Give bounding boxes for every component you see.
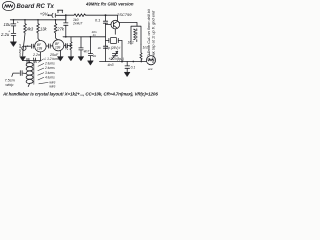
node B [65,14,67,16]
svg-text:0.1: 0.1 [131,66,136,70]
svg-text:0.1: 0.1 [95,18,100,22]
transistor Q2 [53,40,64,51]
capacitor C8 antenna [20,71,22,76]
svg-text:13k: 13k [40,27,48,32]
wire R1 to LED chain [23,34,25,56]
svg-text:GND led: GND led [18,44,22,56]
wire rail drop [65,15,67,22]
capacitor C13 [125,62,130,73]
svg-text:former, tap at 1t up fr. gnd e: former, tap at 1t up fr. gnd end [151,10,156,63]
node K [132,61,134,63]
node H [65,36,67,38]
node D [13,19,15,21]
svg-text:4k3: 4k3 [27,27,34,32]
node L [140,61,142,63]
svg-text:Board RC Tx: Board RC Tx [17,4,55,10]
mid rail wire [63,36,106,38]
capacitor C10 [88,37,92,61]
wire Q2 emitter [59,51,61,57]
svg-text:199: 199 [55,45,61,49]
crystal X1 [111,38,117,44]
node F [37,19,39,21]
svg-text:2x4u7: 2x4u7 [72,21,82,25]
capacitor C6 [64,44,71,48]
capacitor C2 [11,33,16,35]
resistor R1 [24,20,27,34]
svg-text:2 turns: 2 turns [44,62,55,66]
resistor R2 [37,20,40,34]
transistor Q1 [35,41,46,52]
capacitor C7 [27,58,29,62]
svg-text:At handlebar is crystal layout: At handlebar is crystal layout! X=1k2+..… [2,91,158,96]
wire center vertical [105,15,107,21]
svg-text:1n: 1n [93,33,97,37]
ground [58,57,64,61]
svg-text:49MHz Rx GND version: 49MHz Rx GND version [85,2,134,7]
lower rail wire [100,61,147,63]
capacitor C11 [103,21,107,23]
svg-text:4n7: 4n7 [84,49,90,53]
capacitor C3 [25,44,35,48]
svg-text:+9V: +9V [40,12,49,17]
ground [20,57,26,61]
capacitor C9 [79,37,83,57]
resistor R7 [140,44,142,60]
resistor R3 [54,20,57,34]
svg-text:47p (25V) t: 47p (25V) t [105,46,121,50]
resistor R6 [70,37,72,57]
capacitor C12 [103,46,107,48]
ground [78,57,84,61]
svg-text:ant.: ant. [148,67,153,71]
resistor R4 horizontal [74,14,86,17]
svg-text:1u: 1u [92,54,96,58]
ground [10,42,16,47]
wire cap stack [13,20,15,24]
svg-text:27k: 27k [56,27,65,32]
wire Q3 to T1 [119,22,137,26]
wire left rail [10,15,66,20]
svg-text:+2.2V(tp1): +2.2V(tp1) [109,57,125,61]
capacitor C4 [46,44,53,48]
ground [68,57,74,61]
svg-text:10u: 10u [4,22,12,27]
svg-text:2SC799: 2SC799 [116,12,132,17]
svg-text:4n3: 4n3 [108,63,114,67]
svg-text:2 turns: 2 turns [44,66,55,70]
svg-text:199: 199 [37,46,43,50]
node J [121,61,123,63]
trimmer VC1 [112,54,117,56]
ground [124,72,130,76]
wire top rail right [66,14,74,16]
svg-text:3 turns: 3 turns [45,71,55,75]
jack J2 [146,56,155,65]
node A [47,14,49,16]
svg-text:4n: 4n [98,46,102,50]
svg-text:7.5cm: 7.5cm [5,79,15,83]
transformer T1 [131,26,141,44]
node I [90,36,92,38]
connector J1 [52,13,55,17]
diode D1 [22,46,26,50]
svg-text:2k2: 2k2 [65,44,69,51]
svg-text:L 1.2 turns: L 1.2 turns [45,57,60,61]
svg-text:2.2n: 2.2n [32,53,40,57]
resistor R5 [34,58,37,63]
node C [105,14,107,16]
svg-text:+: + [17,21,19,25]
wire R3 to Q2 [56,34,58,40]
winding leader lines [38,59,49,84]
ground [88,61,94,65]
wire emitter node [23,60,41,62]
inductor L1 [28,61,30,63]
capacitor C5 [64,23,68,25]
svg-text:16.2: 16.2 [128,41,134,45]
svg-text:wire: wire [50,85,56,89]
svg-text:4 turns: 4 turns [45,75,55,79]
switch S1 [57,10,62,13]
wire battery feed [49,14,53,16]
transistor Q3 [111,20,120,29]
title text [0,2,163,97]
svg-text:+: + [8,30,10,34]
wire Q1 emitter [39,52,41,61]
node G [55,19,57,21]
wire R2 to Q1 [38,34,40,41]
svg-text:whip: whip [6,83,14,87]
logo [2,1,14,10]
capacitor C1 [11,24,16,26]
node E [24,19,26,21]
wire to whip [12,73,26,76]
